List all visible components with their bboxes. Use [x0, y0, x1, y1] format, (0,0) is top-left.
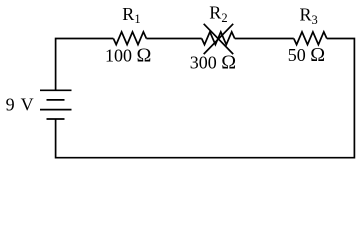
battery short plate 2 (negative): [47, 118, 65, 120]
battery short plate 1: [47, 99, 65, 101]
svg-text:50 Ω: 50 Ω: [288, 44, 325, 66]
wire from battery positive plate up the left side and across to R1: [56, 39, 114, 91]
battery long plate 2: [40, 109, 72, 111]
resistor R1: [113, 32, 146, 45]
battery B1 (9 V source): [40, 90, 72, 119]
svg-text:100 Ω: 100 Ω: [105, 44, 151, 66]
svg-text:R2: R2: [209, 3, 227, 25]
svg-text:300 Ω: 300 Ω: [190, 52, 236, 74]
battery long plate 1 (positive): [40, 89, 72, 91]
svg-text:9 V: 9 V: [6, 94, 34, 114]
svg-text:R3: R3: [300, 5, 318, 27]
X mark over R2 (failed component): [204, 24, 234, 54]
svg-text:R1: R1: [122, 4, 140, 26]
resistor R3: [294, 32, 327, 45]
resistor R2: [202, 32, 235, 45]
wire from R3 to top-right corner, down the right side and along the bottom to battery negative plate: [56, 39, 355, 158]
wire between R1 and R2: [146, 38, 201, 40]
wire between R2 and R3: [235, 38, 294, 40]
